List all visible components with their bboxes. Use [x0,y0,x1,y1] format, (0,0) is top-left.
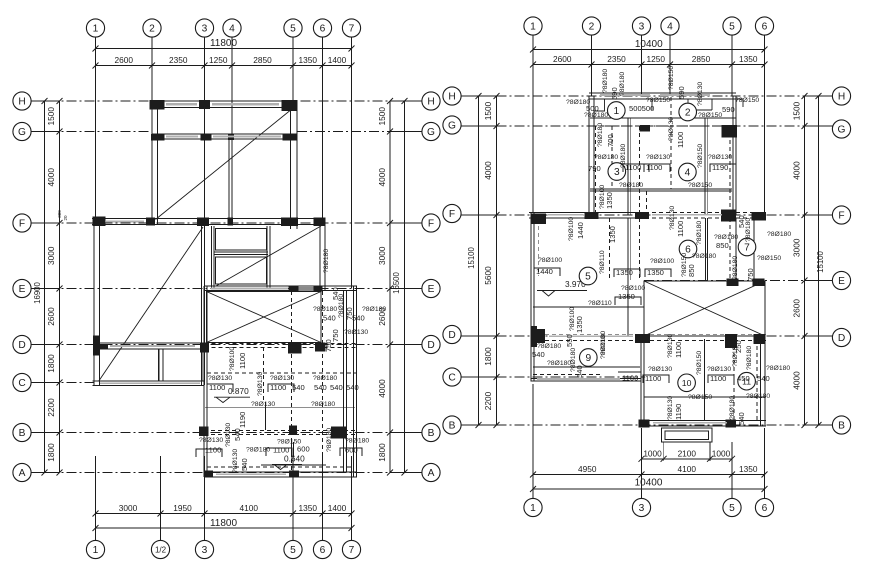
svg-text:2350: 2350 [169,55,188,65]
svg-text:A: A [428,468,435,479]
svg-text:1950: 1950 [173,503,192,513]
svg-text:?8Ø100: ?8Ø100 [538,257,562,264]
svg-text:540: 540 [233,428,242,441]
svg-text:1100: 1100 [238,353,247,369]
svg-text:1000: 1000 [643,448,662,458]
svg-text:1250: 1250 [209,55,228,65]
lower block beam lines [207,372,356,374]
svg-text:?8Ø180: ?8Ø180 [692,253,716,260]
svg-text:G: G [427,127,435,138]
svg-text:?8Ø180: ?8Ø180 [584,112,608,119]
svg-text:?8Ø180: ?8Ø180 [602,69,609,93]
left plan upper block diagonal [156,107,296,220]
right plan right dimension chain [804,96,806,425]
svg-text:?8Ø180: ?8Ø180 [696,221,703,245]
svg-text:0.870: 0.870 [228,386,249,396]
right plan upper block outline [589,92,736,94]
svg-text:7: 7 [349,24,355,35]
svg-text:1500: 1500 [377,107,387,126]
svg-text:1000: 1000 [712,448,731,458]
svg-text:D: D [838,333,845,344]
svg-text:2850: 2850 [253,55,272,65]
svg-text:1400: 1400 [328,503,347,513]
svg-text:?8Ø100: ?8Ø100 [650,258,674,265]
svg-text:B: B [449,421,456,432]
svg-text:15100: 15100 [816,250,825,272]
block 9 walls [531,378,641,380]
svg-text:D: D [427,340,434,351]
big X-brace panel right plan [644,281,765,336]
svg-text:?8Ø130: ?8Ø130 [251,401,275,408]
svg-text:11800: 11800 [210,38,238,49]
svg-text:C: C [448,373,455,384]
bracket marks right plan [623,164,649,172]
right plan middle block [530,213,532,382]
svg-text:F: F [428,219,434,230]
middle strip diagonal [216,226,321,286]
svg-text:?8Ø150: ?8Ø150 [668,66,675,90]
svg-text:590: 590 [677,86,686,99]
svg-text:540: 540 [737,412,746,425]
svg-text:1800: 1800 [483,347,493,366]
bracket marks around 1100 labels [207,384,233,392]
svg-text:H: H [18,97,25,108]
svg-text:?8Ø100: ?8Ø100 [621,285,645,292]
svg-text:?8Ø110: ?8Ø110 [588,300,612,307]
svg-text:?8Ø180: ?8Ø180 [362,306,386,313]
svg-text:540: 540 [314,383,327,392]
svg-text:2600: 2600 [46,307,56,326]
svg-text:1100: 1100 [622,374,638,383]
svg-text:0.640: 0.640 [284,454,305,464]
svg-text:?8Ø150: ?8Ø150 [735,97,759,104]
right plan D beam (dashed pair) [531,334,766,336]
zone5 beam line y307 [533,306,644,308]
svg-text:B: B [428,428,435,439]
1100 leader at block9 right [618,371,641,373]
left plan middle strip rooms [211,226,213,289]
left plan grid bubbles right [422,92,440,110]
svg-text:G: G [18,127,26,138]
svg-text:D: D [18,340,25,351]
svg-text:?8Ø150: ?8Ø150 [697,144,704,168]
svg-text:10: 10 [682,378,692,388]
svg-text:?8Ø180: ?8Ø180 [338,294,345,318]
svg-text:?8Ø180: ?8Ø180 [326,428,333,452]
svg-text:11800: 11800 [210,518,238,529]
left plan F beam [92,218,326,220]
svg-text:?8Ø130: ?8Ø130 [648,366,672,373]
right plan grid bubbles left [443,87,461,105]
svg-text:2: 2 [685,108,691,119]
svg-text:6: 6 [762,22,768,33]
left plan E beam [204,285,357,287]
svg-text:1100: 1100 [205,446,221,455]
lower block D beam dashes [205,343,358,345]
svg-text:?8Ø180: ?8Ø180 [714,234,738,241]
svg-text:D: D [448,330,455,341]
svg-text:1800: 1800 [46,443,56,462]
svg-text:1: 1 [530,503,536,514]
svg-text:F: F [449,209,455,220]
svg-text:1: 1 [93,545,99,556]
svg-text:1500: 1500 [792,101,802,120]
svg-text:2350: 2350 [607,54,626,64]
svg-text:2: 2 [149,24,155,35]
svg-text:450: 450 [737,374,750,383]
svg-text:?8Ø180: ?8Ø180 [313,306,337,313]
svg-text:?8Ø180: ?8Ø180 [729,396,736,420]
right plan bottom dims 1000 2100 1000 [642,458,733,460]
svg-text:?8Ø180: ?8Ø180 [323,249,330,273]
svg-text:1100: 1100 [674,342,683,358]
svg-text:?8Ø130: ?8Ø130 [668,117,675,141]
svg-text:4100: 4100 [240,503,259,513]
svg-text:1350: 1350 [608,226,617,243]
svg-text:550: 550 [565,334,574,347]
svg-text:?8Ø180: ?8Ø180 [600,331,607,355]
svg-text:E: E [428,284,435,295]
lower block dashed verticals [291,291,293,472]
svg-text:4000: 4000 [46,168,56,187]
right plan grid bubbles bottom [524,498,542,516]
svg-text:B: B [838,421,845,432]
svg-text:?8Ø130: ?8Ø130 [669,206,676,230]
X-brace panel [207,292,322,343]
svg-text:250: 250 [734,340,743,353]
svg-text:?8Ø180: ?8Ø180 [246,447,270,454]
svg-text:5: 5 [729,22,735,33]
right plan top dims 2600 2350 1250 2850 1350 [533,64,765,66]
left plan top dimension row 2600 2350 1250 2850 1350 1400 [96,65,352,67]
grey window infills [166,103,197,105]
left plan right dimension chain [389,101,391,473]
svg-text:?8Ø180: ?8Ø180 [311,401,335,408]
svg-text:3000: 3000 [377,246,387,265]
svg-text:2200: 2200 [483,391,493,410]
interior walls upper block [627,118,629,215]
svg-text:H: H [427,97,434,108]
svg-text:750: 750 [324,339,333,352]
svg-text:?8Ø130: ?8Ø130 [646,154,670,161]
right plan horizontal grid lines [461,95,833,97]
svg-text:1100: 1100 [676,132,685,148]
svg-text:4100: 4100 [678,464,697,474]
svg-text:C: C [18,378,25,389]
svg-text:1350: 1350 [739,54,758,64]
svg-text:1: 1 [530,22,536,33]
svg-text:?8Ø180: ?8Ø180 [537,343,561,350]
svg-text:1350: 1350 [618,292,635,301]
svg-text:2100: 2100 [678,448,697,458]
svg-text:4950: 4950 [578,464,597,474]
right plan bottom dims 4950 4100 1350 [533,474,765,476]
svg-text:?8Ø130: ?8Ø130 [208,375,232,382]
svg-text:3: 3 [202,24,208,35]
svg-text:5: 5 [290,545,296,556]
svg-text:?8Ø150: ?8Ø150 [688,182,712,189]
svg-text:850: 850 [687,264,696,277]
svg-text:7: 7 [349,545,355,556]
svg-text:?8Ø180: ?8Ø180 [597,123,604,147]
G row dashes [593,125,733,127]
svg-text:?8Ø130: ?8Ø130 [232,449,239,473]
svg-text:?8Ø130: ?8Ø130 [344,329,368,336]
row line solid stubs left plan [31,100,60,102]
right plan columns [640,125,651,132]
svg-text:1500: 1500 [46,107,56,126]
svg-text:540: 540 [346,383,359,392]
svg-text:1100: 1100 [676,221,685,237]
svg-text:6: 6 [320,545,326,556]
svg-text:1400: 1400 [328,55,347,65]
svg-text:E: E [838,276,845,287]
svg-text:540: 540 [532,350,545,359]
svg-text:4: 4 [667,22,673,33]
svg-text:?8Ø130: ?8Ø130 [270,375,294,382]
left plan left dimension chain [59,101,61,473]
svg-text:?8Ø130: ?8Ø130 [697,82,704,106]
interior dashed beams upper block [639,126,641,213]
svg-text:10400: 10400 [635,39,663,50]
svg-text:16500: 16500 [392,271,401,293]
svg-text:2850: 2850 [692,54,711,64]
left plan horizontal grid lines (dash-dot) [31,100,423,102]
svg-text:?8Ø180: ?8Ø180 [594,154,618,161]
svg-text:4000: 4000 [483,161,493,180]
svg-text:?8Ø150: ?8Ø150 [698,112,722,119]
left plan lower-right block [203,286,205,477]
svg-text:790: 790 [588,164,601,173]
svg-text:3: 3 [639,503,645,514]
svg-text:?8Ø150: ?8Ø150 [757,255,781,262]
svg-text:1800: 1800 [377,443,387,462]
svg-text:3000: 3000 [46,246,56,265]
svg-text:?8Ø110: ?8Ø110 [599,250,606,274]
svg-text:?8Ø130: ?8Ø130 [667,396,674,420]
left block diagonal [99,227,203,381]
svg-text:590: 590 [722,105,735,114]
svg-text:1/2: 1/2 [155,545,167,554]
svg-text:5600: 5600 [483,266,493,285]
svg-text:5: 5 [729,503,735,514]
svg-text:1: 1 [613,106,619,117]
left plan bottom dimensions 3000 1950 4100 1350 1400 [96,513,352,515]
right plan room number bubbles [608,102,626,120]
svg-text:G: G [448,121,456,132]
left plan grid bubbles left H..A [13,92,31,110]
svg-text:750: 750 [345,307,354,320]
svg-text:540: 540 [323,314,336,323]
svg-text:1350: 1350 [299,503,318,513]
svg-text:7: 7 [744,243,750,254]
svg-text:2600: 2600 [115,55,134,65]
svg-text:?8Ø130: ?8Ø130 [708,154,732,161]
svg-text:540: 540 [240,458,249,471]
right plan left dimension chain [496,96,498,425]
beam line above F [590,188,732,190]
svg-text:380: 380 [57,210,62,218]
svg-text:5: 5 [290,24,296,35]
svg-text:?8Ø180: ?8Ø180 [745,218,752,242]
svg-text:?8Ø180: ?8Ø180 [766,365,790,372]
block 10-11 walls [640,336,642,426]
svg-text:15100: 15100 [467,246,476,268]
right plan vertical grid lines [532,35,534,213]
svg-text:540: 540 [330,383,343,392]
svg-text:6: 6 [762,503,768,514]
svg-text:4000: 4000 [792,371,802,390]
svg-text:4000: 4000 [377,379,387,398]
svg-text:G: G [838,125,846,136]
svg-text:1350: 1350 [739,464,758,474]
svg-text:5: 5 [585,272,591,283]
svg-text:3000: 3000 [119,503,138,513]
svg-text:850: 850 [716,241,729,250]
svg-text:?8Ø130: ?8Ø130 [225,423,232,447]
svg-text:1190: 1190 [674,404,683,420]
svg-text:F: F [838,211,844,222]
svg-text:?8Ø180: ?8Ø180 [619,182,643,189]
left plan vertical grid lines [95,37,97,226]
svg-text:1350: 1350 [575,316,584,333]
svg-text:4: 4 [229,24,235,35]
svg-text:F: F [19,219,25,230]
svg-text:4000: 4000 [792,161,802,180]
svg-text:?8Ø180: ?8Ø180 [547,360,571,367]
svg-text:1800: 1800 [46,354,56,373]
svg-text:540: 540 [757,374,770,383]
svg-text:500500: 500500 [629,104,654,113]
svg-text:4000: 4000 [377,168,387,187]
svg-text:750: 750 [746,268,755,281]
row line solid stubs right plan [461,95,497,97]
svg-text:6: 6 [320,24,326,35]
svg-text:3: 3 [202,545,208,556]
svg-text:9: 9 [585,353,591,364]
svg-text:?8Ø130: ?8Ø130 [707,366,731,373]
svg-text:20: 20 [63,215,68,221]
svg-text:2: 2 [589,22,595,33]
svg-text:?8Ø180: ?8Ø180 [732,256,739,280]
right plan grid bubbles top 1-6 [524,17,542,35]
left plan left block walls [93,221,95,385]
svg-text:700: 700 [606,134,615,147]
svg-text:?8Ø130: ?8Ø130 [257,372,264,396]
lower block B row dashes [204,430,357,432]
svg-text:A: A [19,468,26,479]
svg-text:E: E [19,284,26,295]
svg-text:B: B [19,428,26,439]
svg-text:?8Ø100: ?8Ø100 [229,347,236,371]
svg-text:600: 600 [345,446,358,455]
svg-text:590: 590 [610,87,619,100]
svg-text:1350: 1350 [605,192,614,209]
svg-text:?8Ø150: ?8Ø150 [646,97,670,104]
svg-text:1350: 1350 [299,55,318,65]
svg-text:2600: 2600 [553,54,572,64]
svg-text:16900: 16900 [33,281,42,303]
svg-text:2200: 2200 [46,398,56,417]
left plan grid bubbles bottom [86,540,104,558]
svg-text:H: H [838,92,845,103]
svg-text:1: 1 [93,24,99,35]
svg-text:?8Ø180: ?8Ø180 [313,375,337,382]
grey wall fill on E beam [299,287,314,291]
right plan grey infills [600,94,650,96]
svg-text:2600: 2600 [792,299,802,318]
porch dim extension stubs [663,442,665,461]
left plan columns [150,100,165,110]
svg-text:1440: 1440 [576,222,585,239]
svg-text:1250: 1250 [647,54,666,64]
svg-text:?8Ø150: ?8Ø150 [696,351,703,375]
svg-text:?8Ø150: ?8Ø150 [688,394,712,401]
svg-text:4: 4 [685,168,691,179]
A wall columns [204,471,213,478]
left plan grid bubbles top 1-7 [86,19,104,37]
svg-text:1190: 1190 [238,412,247,428]
porch below B [662,428,713,442]
right plan F beam [529,212,645,214]
svg-text:?8Ø180: ?8Ø180 [345,438,369,445]
interior dashed verticals F..D [609,218,611,280]
svg-text:1100: 1100 [273,446,289,455]
svg-text:?8Ø130: ?8Ø130 [667,334,674,358]
left plan upper block walls [150,100,297,102]
svg-text:600: 600 [297,445,310,454]
svg-text:10400: 10400 [635,478,663,489]
svg-text:3: 3 [639,22,645,33]
svg-text:?8Ø180: ?8Ø180 [746,393,770,400]
svg-text:?8Ø130: ?8Ø130 [199,437,223,444]
svg-text:540: 540 [575,365,584,378]
svg-text:?8Ø180: ?8Ø180 [767,231,791,238]
svg-text:?8Ø180: ?8Ø180 [746,346,753,370]
svg-text:H: H [448,92,455,103]
svg-text:?8Ø100: ?8Ø100 [568,217,575,241]
svg-text:1500: 1500 [483,101,493,120]
svg-text:3000: 3000 [792,238,802,257]
right plan grid bubbles right [832,87,850,105]
beam line under H row [590,117,736,119]
svg-text:?8Ø180: ?8Ø180 [619,72,626,96]
